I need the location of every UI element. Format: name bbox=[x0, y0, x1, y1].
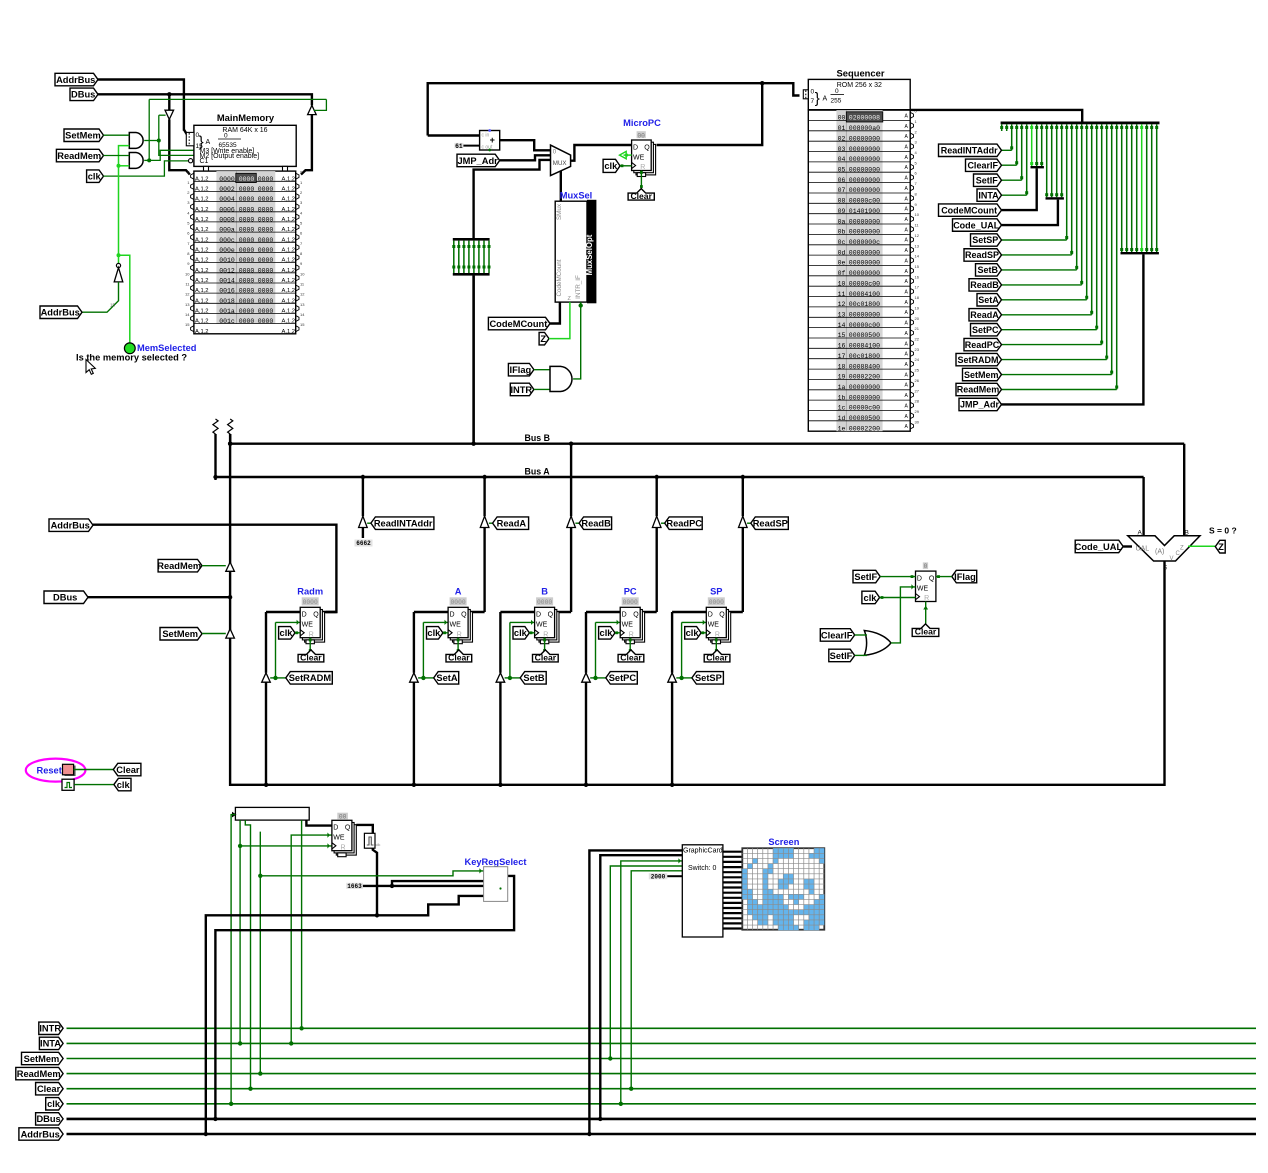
svg-text:A,1,2: A,1,2 bbox=[195, 309, 209, 315]
svg-text:clk: clk bbox=[686, 628, 700, 638]
svg-text:0000: 0000 bbox=[258, 267, 274, 274]
svg-text:1a: 1a bbox=[838, 384, 846, 391]
svg-text:28: 28 bbox=[915, 399, 920, 404]
svg-text:00000000: 00000000 bbox=[849, 187, 880, 194]
svg-text:04: 04 bbox=[838, 156, 846, 163]
svg-text:INTA: INTA bbox=[978, 190, 999, 200]
svg-text:0a: 0a bbox=[838, 218, 846, 225]
svg-text:0008: 0008 bbox=[219, 217, 235, 224]
svg-text:000a: 000a bbox=[219, 227, 235, 234]
svg-text:clk: clk bbox=[427, 628, 441, 638]
svg-text:SetPC: SetPC bbox=[609, 673, 637, 683]
svg-text:A,1,2: A,1,2 bbox=[282, 197, 296, 203]
svg-text:0000: 0000 bbox=[239, 267, 255, 274]
svg-text:INTR: INTR bbox=[39, 1024, 61, 1034]
svg-text:R: R bbox=[715, 631, 720, 638]
svg-text:21: 21 bbox=[915, 326, 920, 331]
svg-text:29: 29 bbox=[915, 409, 920, 414]
svg-text:B: B bbox=[541, 587, 548, 597]
svg-text:R: R bbox=[640, 164, 645, 171]
svg-text:1d: 1d bbox=[838, 415, 846, 422]
svg-text:00084100: 00084100 bbox=[849, 343, 880, 350]
svg-text:0000: 0000 bbox=[623, 599, 638, 606]
svg-text:13: 13 bbox=[915, 243, 920, 248]
svg-text:00000000: 00000000 bbox=[849, 218, 880, 225]
svg-text:A,1,2: A,1,2 bbox=[282, 217, 296, 223]
svg-text:09: 09 bbox=[838, 208, 846, 215]
svg-text:Q: Q bbox=[929, 576, 935, 583]
svg-text:0016: 0016 bbox=[219, 288, 235, 295]
svg-text:JMP_Adr: JMP_Adr bbox=[960, 400, 1000, 410]
svg-text:WE: WE bbox=[917, 586, 929, 593]
svg-text:00802200: 00802200 bbox=[849, 374, 880, 381]
svg-text:0000: 0000 bbox=[303, 599, 318, 606]
svg-text:00000000: 00000000 bbox=[849, 229, 880, 236]
svg-text:WE: WE bbox=[333, 835, 345, 842]
svg-text:Code_UAL: Code_UAL bbox=[1075, 542, 1123, 552]
svg-text:0000: 0000 bbox=[239, 278, 255, 285]
svg-text:WE: WE bbox=[622, 622, 634, 629]
svg-text:A,1,2: A,1,2 bbox=[195, 329, 209, 335]
svg-text:ReadINTAddr: ReadINTAddr bbox=[374, 519, 433, 529]
svg-text:Q: Q bbox=[313, 612, 319, 619]
svg-text:Z: Z bbox=[1218, 542, 1224, 552]
svg-text:02000008: 02000008 bbox=[849, 115, 880, 122]
svg-text:0000: 0000 bbox=[239, 206, 255, 213]
svg-text:R: R bbox=[309, 631, 314, 638]
svg-text:C1: C1 bbox=[200, 158, 209, 165]
svg-text:A: A bbox=[1138, 529, 1143, 536]
svg-text:DBus: DBus bbox=[53, 593, 77, 603]
svg-text:R: R bbox=[341, 844, 346, 851]
svg-text:SMux: SMux bbox=[556, 203, 563, 220]
svg-text:WE: WE bbox=[302, 622, 314, 629]
svg-text:}: } bbox=[815, 90, 820, 107]
svg-text:A: A bbox=[206, 139, 211, 146]
svg-text:Z: Z bbox=[540, 334, 546, 344]
svg-text:R: R bbox=[924, 595, 929, 602]
svg-text:0000: 0000 bbox=[219, 176, 235, 183]
svg-text:ReadMem: ReadMem bbox=[17, 1069, 61, 1079]
svg-text:07: 07 bbox=[838, 187, 846, 194]
svg-text:Q: Q bbox=[633, 612, 639, 619]
svg-text:00000000: 00000000 bbox=[849, 312, 880, 319]
svg-text:INTR_IF: INTR_IF bbox=[575, 275, 582, 299]
svg-text:CodeMCount: CodeMCount bbox=[941, 205, 997, 215]
svg-text:ReadMem: ReadMem bbox=[157, 561, 201, 571]
svg-text:0014: 0014 bbox=[219, 278, 235, 285]
svg-text:255: 255 bbox=[831, 98, 842, 105]
svg-text:MuxSel: MuxSel bbox=[560, 190, 593, 200]
svg-text:ReadB: ReadB bbox=[581, 519, 611, 529]
svg-text:AddrBus: AddrBus bbox=[21, 1129, 60, 1139]
svg-text:19: 19 bbox=[915, 305, 920, 310]
svg-text:ReadPC: ReadPC bbox=[965, 340, 1000, 350]
svg-text:Q: Q bbox=[719, 612, 725, 619]
svg-text:00000000: 00000000 bbox=[849, 384, 880, 391]
svg-text:clk: clk bbox=[376, 842, 381, 847]
svg-text:Clear: Clear bbox=[37, 1084, 61, 1094]
svg-text:61: 61 bbox=[455, 143, 463, 150]
svg-text:D: D bbox=[917, 576, 922, 583]
svg-text:A,1,2: A,1,2 bbox=[195, 207, 209, 213]
svg-text:Q: Q bbox=[548, 612, 554, 619]
svg-text:00: 00 bbox=[637, 132, 645, 139]
svg-text:00000000: 00000000 bbox=[849, 156, 880, 163]
svg-text:ReadMem: ReadMem bbox=[957, 385, 1000, 395]
svg-text:A,1,2: A,1,2 bbox=[195, 237, 209, 243]
svg-text:Clear: Clear bbox=[535, 653, 557, 663]
svg-text:13: 13 bbox=[838, 312, 846, 319]
svg-text:c in: c in bbox=[482, 132, 490, 138]
svg-text:A,1,2: A,1,2 bbox=[282, 227, 296, 233]
svg-text:D: D bbox=[333, 825, 338, 832]
svg-text:IFlag: IFlag bbox=[510, 365, 532, 375]
svg-text:SP: SP bbox=[710, 587, 722, 597]
svg-text:0000: 0000 bbox=[709, 599, 724, 606]
svg-text:SetSP: SetSP bbox=[972, 235, 998, 245]
svg-text:15: 15 bbox=[300, 322, 305, 327]
svg-text:08: 08 bbox=[838, 198, 846, 205]
svg-text:2000: 2000 bbox=[651, 873, 666, 880]
svg-text:A,1,2: A,1,2 bbox=[195, 227, 209, 233]
svg-text:A,1,2: A,1,2 bbox=[282, 207, 296, 213]
svg-text:00002200: 00002200 bbox=[849, 425, 880, 432]
svg-text:0012: 0012 bbox=[219, 267, 235, 274]
svg-text:0000: 0000 bbox=[258, 186, 274, 193]
svg-text:0000: 0000 bbox=[258, 176, 274, 183]
svg-text:22: 22 bbox=[915, 337, 920, 342]
svg-text:WE: WE bbox=[536, 622, 548, 629]
svg-text:00000000: 00000000 bbox=[849, 146, 880, 153]
svg-text:00000c00: 00000c00 bbox=[849, 405, 880, 412]
svg-text:00088400: 00088400 bbox=[849, 363, 880, 370]
svg-text:A,1,2: A,1,2 bbox=[195, 197, 209, 203]
svg-text:SetSP: SetSP bbox=[695, 673, 722, 683]
svg-text:A,1,2: A,1,2 bbox=[282, 309, 296, 315]
svg-text:0f: 0f bbox=[838, 270, 846, 277]
svg-text:A: A bbox=[823, 96, 828, 103]
svg-text:00c01800: 00c01800 bbox=[849, 301, 880, 308]
svg-text:A,1,2: A,1,2 bbox=[195, 268, 209, 274]
svg-text:14: 14 bbox=[300, 312, 305, 317]
svg-text:clk: clk bbox=[117, 780, 131, 790]
svg-text:clk: clk bbox=[600, 628, 614, 638]
svg-text:(A): (A) bbox=[1155, 549, 1164, 556]
svg-text:Q: Q bbox=[644, 144, 650, 151]
svg-text:0000: 0000 bbox=[239, 237, 255, 244]
svg-text:001a: 001a bbox=[219, 308, 235, 315]
svg-text:SetIF: SetIF bbox=[854, 572, 877, 582]
svg-text:ReadA: ReadA bbox=[497, 519, 527, 529]
svg-text:R: R bbox=[457, 631, 462, 638]
svg-text:A,1,2: A,1,2 bbox=[282, 329, 296, 335]
svg-text:00080500: 00080500 bbox=[849, 415, 880, 422]
svg-text:D: D bbox=[622, 612, 627, 619]
svg-text:16: 16 bbox=[838, 343, 846, 350]
svg-text:30: 30 bbox=[915, 419, 920, 424]
svg-text:GraphicCard: GraphicCard bbox=[683, 848, 723, 855]
svg-text:clk: clk bbox=[88, 172, 102, 182]
svg-text:27: 27 bbox=[915, 388, 920, 393]
svg-text:14: 14 bbox=[915, 254, 920, 259]
svg-text:0000: 0000 bbox=[239, 308, 255, 315]
svg-text:10: 10 bbox=[300, 271, 305, 276]
svg-text:0002: 0002 bbox=[219, 186, 235, 193]
svg-text:01: 01 bbox=[838, 125, 846, 132]
svg-text:Bus B: Bus B bbox=[525, 433, 550, 443]
svg-text:B: B bbox=[1185, 529, 1189, 536]
svg-text:10: 10 bbox=[915, 212, 920, 217]
svg-text:00000c00: 00000c00 bbox=[849, 198, 880, 205]
svg-text:00000000: 00000000 bbox=[849, 270, 880, 277]
svg-text:0000: 0000 bbox=[258, 257, 274, 264]
svg-text:SetMem: SetMem bbox=[964, 370, 999, 380]
svg-text:06: 06 bbox=[838, 177, 846, 184]
svg-text:A,1,2: A,1,2 bbox=[282, 176, 296, 182]
svg-text:19: 19 bbox=[838, 374, 846, 381]
svg-text:SetRADM: SetRADM bbox=[289, 673, 332, 683]
svg-text:ReadMem: ReadMem bbox=[57, 151, 101, 161]
svg-text:20: 20 bbox=[915, 316, 920, 321]
svg-text:A,1,2: A,1,2 bbox=[195, 298, 209, 304]
svg-text:ReadINTAddr: ReadINTAddr bbox=[941, 146, 998, 156]
svg-text:18: 18 bbox=[838, 363, 846, 370]
svg-text:0000: 0000 bbox=[239, 288, 255, 295]
svg-text:S = 0 ?: S = 0 ? bbox=[1209, 526, 1237, 536]
svg-text:A,1,2: A,1,2 bbox=[195, 278, 209, 284]
svg-text:SetMem: SetMem bbox=[162, 629, 198, 639]
svg-text:0000: 0000 bbox=[239, 318, 255, 325]
svg-text:15: 15 bbox=[838, 332, 846, 339]
svg-text:0000: 0000 bbox=[239, 227, 255, 234]
svg-text:clk: clk bbox=[604, 161, 618, 171]
svg-text:0006: 0006 bbox=[219, 206, 235, 213]
svg-text:00000000: 00000000 bbox=[849, 249, 880, 256]
svg-text:DBus: DBus bbox=[36, 1114, 60, 1124]
svg-text:0000: 0000 bbox=[258, 298, 274, 305]
svg-text:ReadSP: ReadSP bbox=[753, 519, 788, 529]
svg-text:10: 10 bbox=[185, 271, 190, 276]
svg-text:15: 15 bbox=[915, 264, 920, 269]
svg-text:0000: 0000 bbox=[258, 237, 274, 244]
svg-text:c out: c out bbox=[482, 145, 493, 151]
svg-text:0000: 0000 bbox=[239, 247, 255, 254]
svg-text:16: 16 bbox=[915, 274, 920, 279]
svg-text:A,1,2: A,1,2 bbox=[195, 217, 209, 223]
svg-text:UAL: UAL bbox=[1136, 546, 1150, 553]
svg-text:WE: WE bbox=[633, 154, 645, 161]
svg-text:MainMemory: MainMemory bbox=[217, 112, 275, 123]
svg-text:AddrBus: AddrBus bbox=[56, 75, 95, 85]
svg-text:A,1,2: A,1,2 bbox=[195, 288, 209, 294]
svg-text:DBus: DBus bbox=[71, 90, 95, 100]
svg-text:SetB: SetB bbox=[977, 265, 998, 275]
svg-text:00080500: 00080500 bbox=[849, 332, 880, 339]
svg-text:12: 12 bbox=[915, 233, 920, 238]
svg-text:A: A bbox=[455, 587, 462, 597]
svg-text:SetMem: SetMem bbox=[65, 131, 101, 141]
svg-text:JMP_Adr: JMP_Adr bbox=[457, 156, 498, 166]
svg-text:D: D bbox=[633, 144, 638, 151]
svg-text:13: 13 bbox=[185, 302, 190, 307]
svg-text:clk: clk bbox=[514, 628, 528, 638]
svg-text:A,1,2: A,1,2 bbox=[282, 248, 296, 254]
svg-text:Radm: Radm bbox=[297, 587, 323, 597]
svg-text:24: 24 bbox=[915, 357, 920, 362]
svg-text:0000: 0000 bbox=[258, 278, 274, 285]
svg-text:0c: 0c bbox=[838, 239, 846, 246]
svg-text:0000: 0000 bbox=[537, 599, 552, 606]
svg-text:Clear: Clear bbox=[116, 765, 140, 775]
svg-text:00000000: 00000000 bbox=[849, 135, 880, 142]
svg-text:R: R bbox=[543, 631, 548, 638]
svg-text:0000: 0000 bbox=[239, 298, 255, 305]
svg-text:0000: 0000 bbox=[258, 206, 274, 213]
svg-text:23: 23 bbox=[915, 347, 920, 352]
svg-text:0b: 0b bbox=[838, 229, 846, 236]
svg-text:6662: 6662 bbox=[356, 540, 371, 547]
svg-text:00: 00 bbox=[339, 814, 347, 821]
svg-text:14: 14 bbox=[185, 312, 190, 317]
svg-text:CodeMCount: CodeMCount bbox=[556, 259, 563, 296]
svg-text:SetIF: SetIF bbox=[830, 651, 853, 661]
svg-text:ReadA: ReadA bbox=[970, 310, 999, 320]
svg-text:Sequencer: Sequencer bbox=[837, 68, 885, 79]
svg-text:26: 26 bbox=[915, 378, 920, 383]
svg-text:A,1,2: A,1,2 bbox=[195, 319, 209, 325]
svg-text:SetA: SetA bbox=[436, 673, 457, 683]
svg-text:14: 14 bbox=[838, 322, 846, 329]
svg-text:Q: Q bbox=[461, 612, 467, 619]
svg-text:008000a0: 008000a0 bbox=[849, 125, 880, 132]
svg-text:ClearIF: ClearIF bbox=[821, 630, 853, 640]
svg-text:ClearIF: ClearIF bbox=[967, 161, 998, 171]
svg-text:25: 25 bbox=[915, 368, 920, 373]
svg-text:A,1,2: A,1,2 bbox=[195, 258, 209, 264]
svg-text:Clear: Clear bbox=[630, 191, 652, 201]
svg-text:00000c00: 00000c00 bbox=[849, 280, 880, 287]
svg-text:0000: 0000 bbox=[258, 247, 274, 254]
svg-text:0000: 0000 bbox=[451, 599, 466, 606]
svg-text:00000c00: 00000c00 bbox=[849, 322, 880, 329]
svg-text:0000: 0000 bbox=[239, 186, 255, 193]
svg-text:001c: 001c bbox=[219, 318, 235, 325]
svg-text:0000: 0000 bbox=[258, 217, 274, 224]
svg-text:RAM 64K x 16: RAM 64K x 16 bbox=[222, 127, 267, 134]
svg-text:Switch: 0: Switch: 0 bbox=[688, 865, 717, 872]
svg-text:15: 15 bbox=[185, 322, 190, 327]
svg-text:0000: 0000 bbox=[239, 176, 255, 183]
svg-text:clk: clk bbox=[47, 1099, 61, 1109]
svg-text:0080000c: 0080000c bbox=[849, 239, 880, 246]
svg-text:10: 10 bbox=[838, 280, 846, 287]
svg-text:R: R bbox=[629, 631, 634, 638]
svg-text:02: 02 bbox=[838, 135, 846, 142]
svg-text:0d: 0d bbox=[838, 249, 846, 256]
svg-text:12: 12 bbox=[838, 301, 846, 308]
svg-text:D: D bbox=[302, 612, 307, 619]
svg-text:0: 0 bbox=[924, 563, 928, 570]
svg-text:12: 12 bbox=[185, 292, 190, 297]
svg-text:0: 0 bbox=[835, 88, 839, 95]
svg-text:MuxSelOpt: MuxSelOpt bbox=[585, 234, 594, 275]
svg-text:A,1,2: A,1,2 bbox=[282, 268, 296, 274]
svg-text:A,1,2: A,1,2 bbox=[282, 187, 296, 193]
svg-text:A,1,2: A,1,2 bbox=[195, 248, 209, 254]
svg-text:15: 15 bbox=[110, 303, 116, 308]
svg-text:000c: 000c bbox=[219, 237, 235, 244]
svg-text:0e: 0e bbox=[838, 260, 846, 267]
svg-text:clk: clk bbox=[864, 593, 878, 603]
svg-text:03: 03 bbox=[838, 146, 846, 153]
svg-text:AddrBus: AddrBus bbox=[41, 308, 80, 318]
svg-text:Reset: Reset bbox=[37, 765, 62, 775]
svg-text:A,1,2: A,1,2 bbox=[282, 237, 296, 243]
svg-text:A,1,2: A,1,2 bbox=[195, 176, 209, 182]
svg-text:ReadPC: ReadPC bbox=[666, 519, 702, 529]
svg-text:C: C bbox=[1176, 551, 1181, 557]
svg-text:0004: 0004 bbox=[219, 196, 235, 203]
svg-text:0000: 0000 bbox=[258, 318, 274, 325]
svg-text:00000000: 00000000 bbox=[849, 177, 880, 184]
svg-text:0000: 0000 bbox=[258, 308, 274, 315]
svg-text:A,1,2: A,1,2 bbox=[195, 187, 209, 193]
svg-text:0000: 0000 bbox=[258, 196, 274, 203]
svg-text:A,1,2: A,1,2 bbox=[282, 319, 296, 325]
svg-text:SetMem: SetMem bbox=[24, 1054, 60, 1064]
svg-text:Clear: Clear bbox=[915, 627, 937, 637]
svg-text:17: 17 bbox=[915, 285, 920, 290]
svg-text:SetIF: SetIF bbox=[976, 175, 999, 185]
svg-text:Bus A: Bus A bbox=[525, 466, 551, 476]
svg-text:D: D bbox=[708, 612, 713, 619]
svg-text:00000000: 00000000 bbox=[849, 260, 880, 267]
svg-text:ReadB: ReadB bbox=[970, 280, 999, 290]
svg-text:12: 12 bbox=[300, 292, 305, 297]
svg-text:0018: 0018 bbox=[219, 298, 235, 305]
svg-text:Is the memory selected ?: Is the memory selected ? bbox=[76, 353, 187, 363]
svg-text:Code_UAL: Code_UAL bbox=[953, 220, 1000, 230]
svg-text:MicroPC: MicroPC bbox=[623, 118, 661, 128]
svg-text:V: V bbox=[1170, 556, 1174, 562]
svg-text:00000000: 00000000 bbox=[849, 394, 880, 401]
svg-text:1b: 1b bbox=[838, 394, 846, 401]
svg-text:0000: 0000 bbox=[239, 196, 255, 203]
svg-text:1e: 1e bbox=[838, 425, 846, 432]
svg-text:00c01800: 00c01800 bbox=[849, 353, 880, 360]
svg-text:11: 11 bbox=[838, 291, 846, 298]
svg-text:A,1,2: A,1,2 bbox=[282, 298, 296, 304]
svg-text:IFlag: IFlag bbox=[954, 572, 976, 582]
svg-text:INTR: INTR bbox=[510, 385, 532, 395]
svg-text:A,1,2: A,1,2 bbox=[282, 278, 296, 284]
svg-text:0000: 0000 bbox=[239, 217, 255, 224]
svg-text:WE: WE bbox=[708, 622, 720, 629]
svg-text:18: 18 bbox=[915, 295, 920, 300]
svg-text:Clear: Clear bbox=[448, 653, 470, 663]
svg-text:clk: clk bbox=[280, 628, 294, 638]
svg-text:ReadSP: ReadSP bbox=[965, 250, 999, 260]
svg-text:01401900: 01401900 bbox=[849, 208, 880, 215]
svg-text:00084100: 00084100 bbox=[849, 291, 880, 298]
svg-text:0010: 0010 bbox=[219, 257, 235, 264]
svg-text:Screen: Screen bbox=[768, 837, 799, 847]
svg-text:Q: Q bbox=[345, 825, 351, 832]
svg-text:000e: 000e bbox=[219, 247, 235, 254]
svg-text:A,1,2: A,1,2 bbox=[282, 258, 296, 264]
svg-text:Clear: Clear bbox=[706, 653, 728, 663]
